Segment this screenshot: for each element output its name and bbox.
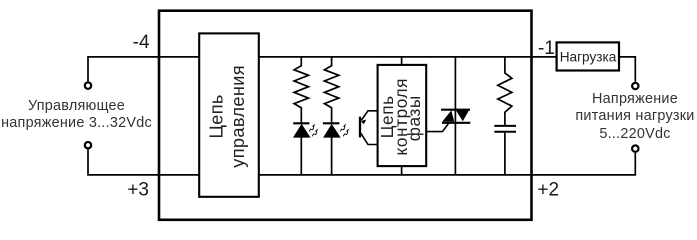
capacitor C1 bottom plate	[494, 131, 516, 133]
triac V1 bottom edge	[442, 122, 470, 124]
triac V1 right triangle	[456, 110, 470, 121]
svg-text:питания нагрузки: питания нагрузки	[575, 108, 694, 124]
triac V1 vertical wire	[454, 57, 456, 175]
wire below capacitor C1	[504, 133, 506, 175]
triac V1 left triangle	[442, 110, 454, 121]
wire: load box to right top terminal	[619, 57, 635, 82]
svg-text:Напряжение: Напряжение	[592, 91, 678, 107]
terminal right top	[632, 83, 638, 89]
control circuit block U1 box	[199, 33, 259, 196]
wire: bottom-left input from terminal to U1	[88, 149, 199, 174]
terminal right bottom	[632, 145, 638, 151]
LED D2 triangle	[324, 124, 341, 137]
svg-text:Нагрузка: Нагрузка	[560, 49, 617, 64]
svg-text:+2: +2	[537, 179, 559, 200]
wire: U2 bottom connector	[401, 166, 403, 175]
svg-text:напряжение 3...32Vdc: напряжение 3...32Vdc	[1, 115, 152, 131]
LED D1 cathode bar	[293, 122, 309, 124]
svg-text:5...220Vdc: 5...220Vdc	[599, 126, 670, 142]
LED D1 triangle	[294, 124, 311, 137]
label Цепь контроля фазы	[377, 78, 424, 156]
wire: bottom bus from U1 to right bottom terminal	[259, 153, 636, 175]
wire: gate from U2 to triac	[426, 123, 449, 132]
svg-text:фазы: фазы	[404, 95, 424, 141]
svg-text:Управляющее: Управляющее	[28, 98, 125, 114]
wire below LED D2	[331, 137, 333, 174]
phase control block U2 box	[378, 65, 427, 166]
resistor R1 (left LED branch)	[294, 57, 308, 122]
wire: top bus from U1 to load box	[259, 56, 557, 58]
triac V1 top edge	[441, 109, 470, 111]
load box	[557, 42, 619, 70]
svg-text:+3: +3	[127, 180, 149, 201]
wire: U2 top connector	[401, 57, 403, 65]
svg-text:-4: -4	[133, 32, 150, 53]
phototransistor Q1 collector lead	[361, 111, 377, 120]
phototransistor Q1 collector arrowhead	[361, 120, 366, 125]
label control voltage	[1, 98, 152, 131]
resistor R3 (snubber)	[498, 57, 512, 125]
wire: top-left input from terminal to U1	[88, 57, 199, 82]
outer SSR body box	[159, 11, 532, 220]
svg-text:-1: -1	[538, 38, 555, 59]
label load supply voltage	[575, 91, 694, 142]
terminal left bottom	[85, 142, 91, 148]
svg-text:управления: управления	[228, 65, 248, 168]
resistor R2 (right LED branch)	[324, 57, 338, 122]
phototransistor Q1 base bar	[359, 117, 361, 138]
LED D2 light arrows	[340, 127, 348, 136]
capacitor C1 top plate	[494, 125, 516, 127]
phototransistor Q1 emitter lead	[361, 133, 378, 144]
label Цепь управления	[206, 65, 248, 168]
terminal left top	[85, 82, 91, 88]
LED D2 cathode bar	[323, 122, 340, 124]
wire below LED D1	[300, 137, 302, 174]
svg-text:Цепь: Цепь	[206, 94, 226, 138]
LED D1 light arrows	[309, 127, 317, 136]
